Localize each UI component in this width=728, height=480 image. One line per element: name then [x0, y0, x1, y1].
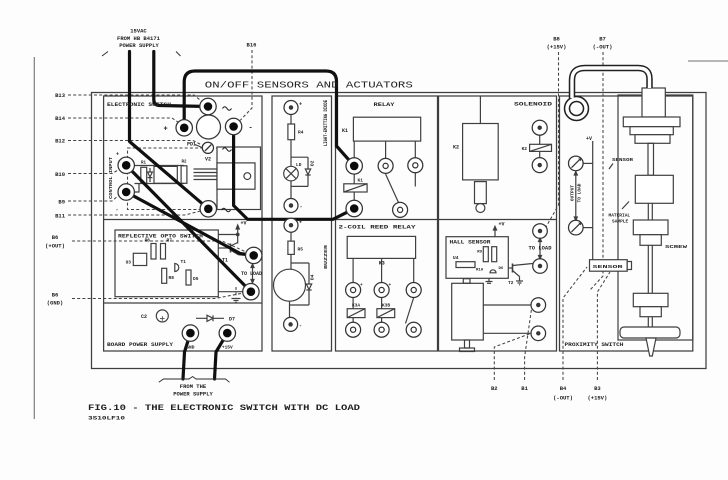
svg-text:+: + — [299, 220, 302, 226]
svg-text:SCREW: SCREW — [665, 244, 687, 250]
svg-text:FIG.10 - THE ELECTRONIC SWITCH: FIG.10 - THE ELECTRONIC SWITCH WITH DC L… — [88, 404, 360, 413]
svg-text:R10: R10 — [476, 269, 484, 273]
svg-text:CONTROL INPUT: CONTROL INPUT — [108, 157, 114, 199]
svg-text:+V: +V — [241, 221, 247, 227]
svg-text:BUZZER: BUZZER — [323, 245, 329, 269]
svg-text:B11: B11 — [55, 213, 66, 220]
svg-text:B12: B12 — [55, 138, 65, 145]
svg-text:ON/OFF SENSORS AND ACTUATORS: ON/OFF SENSORS AND ACTUATORS — [205, 81, 413, 91]
svg-text:TO LOAD: TO LOAD — [241, 271, 262, 277]
svg-text:TO LOAD: TO LOAD — [529, 246, 552, 252]
svg-text:B8: B8 — [553, 36, 560, 43]
svg-text:V2: V2 — [205, 157, 211, 163]
svg-text:D2: D2 — [310, 160, 316, 166]
svg-text:PD1: PD1 — [187, 142, 196, 148]
svg-text:K1: K1 — [358, 178, 364, 184]
svg-text:K1: K1 — [342, 128, 348, 134]
svg-text:B16: B16 — [247, 42, 257, 49]
svg-text:+V: +V — [499, 222, 505, 228]
svg-text:B1: B1 — [521, 385, 528, 392]
svg-text:K3B: K3B — [382, 303, 390, 309]
svg-text:K3: K3 — [379, 261, 385, 267]
svg-text:B2: B2 — [491, 385, 498, 392]
svg-text:C2: C2 — [141, 314, 147, 320]
svg-text:POWER SUPPLY: POWER SUPPLY — [173, 391, 213, 398]
svg-text:OUTPUT: OUTPUT — [570, 185, 576, 202]
svg-text:TO LOAD: TO LOAD — [577, 183, 583, 202]
svg-text:R2: R2 — [181, 161, 187, 165]
svg-text:D7: D7 — [229, 317, 235, 323]
svg-text:R8: R8 — [169, 275, 175, 281]
svg-text:+15V: +15V — [222, 345, 233, 351]
svg-text:B6: B6 — [52, 292, 59, 299]
svg-text:+V: +V — [586, 136, 592, 142]
svg-text:T1: T1 — [222, 258, 228, 264]
svg-text:R7: R7 — [167, 238, 173, 244]
svg-text:B3: B3 — [594, 385, 601, 392]
svg-text:(+OUT): (+OUT) — [45, 243, 65, 250]
svg-text:(-OUT): (-OUT) — [593, 44, 613, 51]
svg-text:-: - — [299, 323, 302, 329]
svg-text:SENSOR: SENSOR — [612, 157, 633, 163]
svg-text:2-COIL REED RELAY: 2-COIL REED RELAY — [339, 225, 416, 231]
svg-text:B9: B9 — [58, 199, 65, 206]
svg-text:K2: K2 — [522, 146, 528, 152]
svg-text:(+15V): (+15V) — [547, 44, 567, 51]
svg-text:R1: R1 — [141, 162, 147, 166]
svg-text:T1: T1 — [181, 259, 187, 265]
svg-text:R4: R4 — [298, 130, 304, 136]
svg-text:+: + — [164, 126, 168, 134]
svg-text:ELECTRONIC SWITCH: ELECTRONIC SWITCH — [107, 101, 171, 108]
svg-text:BOARD POWER SUPPLY: BOARD POWER SUPPLY — [107, 342, 173, 348]
svg-text:MATERIAL: MATERIAL — [609, 213, 631, 219]
svg-text:B4: B4 — [560, 385, 567, 392]
svg-text:FROM HB B4171: FROM HB B4171 — [117, 35, 161, 42]
svg-text:R6: R6 — [145, 238, 151, 244]
svg-text:RELAY: RELAY — [374, 102, 395, 108]
svg-text:+: + — [360, 283, 363, 288]
svg-text:U4: U4 — [453, 255, 459, 261]
svg-text:SENSOR: SENSOR — [593, 264, 624, 270]
svg-text:(-OUT): (-OUT) — [553, 395, 573, 402]
svg-text:B14: B14 — [55, 115, 66, 122]
svg-text:(GND): (GND) — [47, 300, 64, 307]
svg-text:K3A: K3A — [352, 303, 360, 309]
svg-text:T2: T2 — [508, 280, 514, 286]
svg-text:B13: B13 — [55, 92, 66, 99]
svg-text:SAMPLE: SAMPLE — [612, 219, 629, 225]
svg-text:D6: D6 — [499, 267, 504, 271]
svg-text:GND: GND — [186, 345, 194, 351]
svg-text:POWER SUPPLY: POWER SUPPLY — [119, 42, 159, 49]
svg-text:B6: B6 — [52, 234, 59, 241]
svg-text:LIGHT-EMITTING DIODE: LIGHT-EMITTING DIODE — [323, 100, 329, 146]
svg-text:REFLECTIVE OPTO SWITCH: REFLECTIVE OPTO SWITCH — [118, 233, 203, 240]
svg-text:+: + — [299, 102, 302, 108]
svg-text:K2: K2 — [453, 145, 459, 151]
svg-text:B10: B10 — [55, 171, 65, 178]
svg-text:FROM THE: FROM THE — [180, 383, 207, 390]
svg-text:HALL SENSOR: HALL SENSOR — [450, 240, 491, 246]
svg-text:SOLENOID: SOLENOID — [514, 102, 552, 108]
svg-text:3S10LF10: 3S10LF10 — [88, 416, 125, 422]
svg-text:PROXIMITY SWITCH: PROXIMITY SWITCH — [565, 342, 624, 348]
svg-text:D4: D4 — [310, 274, 316, 280]
svg-text:-: - — [115, 207, 118, 213]
svg-text:+: + — [116, 152, 119, 158]
svg-text:+: + — [389, 283, 392, 288]
svg-text:B7: B7 — [599, 36, 606, 43]
svg-text:R5: R5 — [298, 247, 304, 253]
svg-text:15VAC: 15VAC — [130, 28, 147, 35]
svg-text:(+15V): (+15V) — [587, 395, 607, 402]
svg-text:LD: LD — [296, 162, 302, 168]
svg-text:-: - — [300, 204, 303, 210]
svg-text:-: - — [249, 125, 253, 133]
svg-text:U3: U3 — [126, 260, 132, 266]
svg-text:R9: R9 — [477, 251, 482, 255]
svg-text:D5: D5 — [193, 276, 199, 282]
